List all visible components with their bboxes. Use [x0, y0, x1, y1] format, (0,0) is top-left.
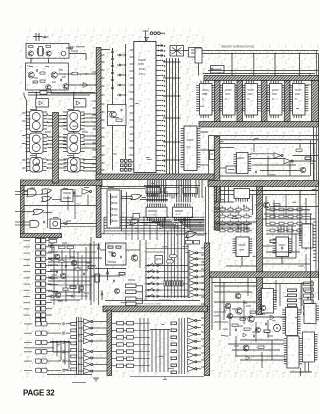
wire U31 U32 bottom	[241, 257, 243, 267]
wires bm to right	[139, 318, 141, 372]
capacitor row C17-C21	[119, 54, 121, 57]
coil L1	[273, 324, 280, 331]
bus bar D (hatched)	[205, 243, 210, 376]
specks rc	[50, 242, 55, 244]
IC U33 right edge	[302, 224, 313, 248]
resistor pack comb	[164, 281, 166, 286]
wire brc h4	[240, 339, 284, 341]
diode ladder in U28	[111, 196, 114, 199]
wire blk1 h2	[220, 143, 316, 145]
transistor Q11	[225, 303, 231, 309]
vertical bus lines bd	[178, 318, 180, 374]
wire brc v	[255, 322, 257, 342]
resistor column RN6	[171, 322, 177, 325]
vertical bus lines bm	[76, 317, 78, 375]
wires center under band dense	[146, 191, 168, 193]
gate U20 AND	[28, 189, 37, 196]
wire blk1 h7	[252, 164, 296, 166]
wire brc h5	[235, 355, 285, 357]
wire gates h1	[24, 205, 96, 207]
transistor Q12	[236, 308, 242, 314]
vertical lines center bottom	[151, 330, 153, 373]
wire gates h4	[52, 199, 61, 201]
wire blk2 h1	[220, 190, 319, 192]
bus junction dots	[127, 222, 129, 224]
transistor Q16	[54, 254, 60, 260]
gates column G3	[188, 318, 195, 323]
wires rc area	[51, 243, 53, 252]
resistor column RN5	[71, 323, 77, 326]
right area wires y186-272	[265, 196, 267, 226]
wire bm bus top	[50, 341, 70, 343]
bar A right stubs	[101, 54, 105, 56]
transformer TL3	[30, 158, 43, 173]
transistor Q7	[110, 111, 117, 118]
wire lrb h1	[212, 282, 257, 284]
capacitor stack C30-C32	[160, 44, 162, 47]
detector box L	[36, 99, 49, 108]
IC U31	[236, 237, 249, 257]
resistor R21	[244, 328, 250, 330]
buffer IC U9	[234, 189, 250, 199]
decoupling ladder wires	[112, 48, 114, 170]
wire lrb h2	[263, 283, 311, 285]
junction dots ladder	[125, 54, 126, 55]
keyboard matrix rows + key switches	[145, 265, 188, 267]
gates column G2	[84, 319, 91, 324]
jumper oval J5	[170, 255, 177, 258]
oscillator box U1	[26, 44, 69, 59]
bus taps left	[125, 217, 127, 240]
resistor R2	[46, 46, 51, 48]
wire timer v1	[90, 237, 92, 305]
shield band right (hatched)	[208, 181, 319, 187]
junctions rm2	[265, 218, 266, 219]
horizontal taps cpu-right bus	[163, 61, 181, 63]
wires rc extra	[50, 251, 96, 253]
wire timer h1	[95, 268, 126, 270]
transistor Q2	[46, 51, 51, 56]
comb right edge	[313, 221, 316, 223]
wire rn bus	[144, 185, 200, 187]
capacitor C40	[113, 280, 115, 283]
timer box outline	[106, 243, 127, 265]
diode D2	[270, 315, 274, 320]
resistor R14	[270, 240, 276, 242]
test point TP1	[61, 51, 66, 56]
shield band center (hatched)	[96, 174, 214, 180]
junction blk2	[252, 190, 253, 191]
chain right wires to bar A	[84, 113, 97, 115]
chain R vertical wires	[73, 107, 75, 111]
capacitor C60	[253, 335, 255, 338]
wire bar A top stub	[101, 49, 110, 51]
resistor R3b	[33, 81, 38, 83]
connector column J2 tail	[36, 318, 41, 322]
wire chain left v1	[26, 101, 28, 173]
RAM IC U14 top label	[296, 73, 302, 75]
resistor R22	[258, 346, 264, 348]
wires far right bottom	[300, 368, 302, 376]
transistor Q10	[235, 293, 241, 299]
ground sym bottom	[93, 377, 99, 379]
wires above U31 U32	[237, 224, 239, 233]
resistor R20	[232, 324, 238, 326]
wire osc output	[69, 53, 86, 55]
transistor Q1	[28, 51, 33, 56]
wire timer v2	[98, 258, 100, 305]
divider box U2	[26, 63, 69, 90]
transformer TR3	[68, 158, 81, 173]
wire brc out1	[299, 371, 310, 373]
capacitor C22	[120, 109, 122, 112]
IC U12	[173, 207, 193, 217]
label bottom	[72, 382, 86, 384]
crystal X1	[39, 47, 43, 56]
label speck t1	[128, 279, 135, 281]
transistor Q6	[63, 84, 68, 89]
RAM board frame bottom (hatched)	[199, 122, 319, 128]
component chain rows right-mid	[216, 209, 252, 211]
output IC U18	[303, 332, 315, 362]
wire blk1 h6	[220, 147, 234, 149]
wire blk1 v1	[253, 144, 255, 152]
flipflop box U27	[50, 219, 61, 229]
small box M2	[194, 241, 200, 245]
wire gates out2	[61, 226, 97, 228]
wire top bus to expansion	[201, 50, 319, 52]
wire bus left tail	[103, 217, 105, 234]
RAM IC U11 pins	[219, 85, 222, 87]
RAM IC U14 top/bottom ticks	[293, 81, 295, 84]
transistor Q17	[71, 260, 77, 266]
RAM IC U13 pins	[266, 85, 269, 87]
label speck	[108, 187, 114, 189]
jumper pad grid 3x3	[121, 160, 124, 163]
wire right edge v2	[318, 187, 320, 301]
gate U21 OR	[42, 189, 52, 194]
RAM IC U12 top/bottom ticks	[246, 81, 248, 84]
CPU right pins	[156, 45, 162, 47]
gate U22 OR	[42, 196, 52, 201]
RAM IC U10 window	[200, 84, 213, 116]
RAM frame right (hatched)	[312, 81, 319, 122]
wire gates v2	[47, 190, 49, 228]
transistor Q23	[131, 255, 137, 261]
transistor Q18	[60, 273, 66, 279]
wires rm2 dense	[263, 190, 319, 192]
pair-to-bus links	[134, 322, 151, 324]
resistor R12	[305, 157, 311, 159]
gate U24	[82, 189, 90, 195]
driver cluster extra parts	[227, 313, 232, 318]
chain left wires	[22, 112, 26, 114]
wire blk1 h5	[220, 175, 310, 177]
right edge bus wires	[313, 127, 315, 181]
wire osc to divider	[30, 58, 32, 63]
shaper box U28	[107, 190, 120, 228]
bar B (hatched)	[53, 113, 59, 184]
resistor R5	[72, 72, 78, 75]
driver IC U15	[286, 308, 298, 336]
gate U26 AND	[30, 221, 39, 228]
detector box R	[73, 99, 86, 108]
resistor R23	[264, 330, 270, 332]
wire under band h2	[100, 188, 145, 190]
bar A left stubs	[93, 71, 97, 73]
wire bottom feedback	[50, 90, 52, 93]
reset circuit box	[108, 105, 127, 126]
gate U13 OR	[186, 232, 197, 238]
gate U10 OR	[131, 194, 142, 200]
annotation specks global	[113, 116, 119, 118]
connector pills J3	[24, 323, 32, 325]
capacitor C51	[243, 205, 245, 208]
resistor R31	[119, 273, 125, 275]
decoder box U4	[195, 48, 202, 63]
left margin stubs	[15, 191, 21, 193]
long label line	[24, 347, 54, 349]
small box M1	[186, 241, 193, 245]
tiny parts rc extra	[59, 260, 64, 262]
diode D1	[83, 83, 88, 88]
transistor Q24	[114, 288, 119, 293]
top bus wires over chains	[28, 92, 95, 94]
buffer network RN1	[146, 188, 161, 194]
bus drop wires	[231, 54, 233, 76]
wire blk2 h3	[264, 213, 312, 215]
resistor pack RP1	[288, 289, 297, 292]
gate U5	[211, 66, 225, 74]
timer parts inside	[108, 246, 113, 248]
transformer TR1	[67, 111, 81, 132]
transformer TL2	[30, 133, 44, 154]
capacitor group	[65, 265, 67, 268]
wire lrb h3	[214, 301, 256, 303]
transistor Q20	[55, 292, 61, 298]
transistor Q9	[264, 202, 270, 208]
wire under band v1	[121, 190, 123, 231]
wires from pills to bus	[47, 374, 92, 376]
regulator box REG1	[189, 48, 202, 58]
wire right edge v1	[310, 214, 312, 300]
wire chain left jog	[24, 96, 27, 101]
RAM IC U12 top label	[248, 73, 254, 75]
wire blk2 taps	[216, 187, 218, 203]
wire under band h1	[100, 186, 160, 188]
resistor R6	[116, 119, 122, 121]
wire blk1 v3	[267, 156, 269, 177]
wires timer area	[100, 249, 106, 251]
transistor Q14	[260, 305, 266, 311]
shield band left (hatched)	[21, 180, 103, 186]
resistor R11	[274, 204, 280, 206]
capacitor Cg1	[43, 221, 45, 224]
connector pair columns	[117, 322, 124, 325]
transistor Q8	[300, 167, 305, 172]
vertical tap wires above U11 U12	[147, 180, 149, 203]
power input +B	[145, 31, 147, 42]
wire blk1 out	[293, 155, 319, 157]
transistor Q4	[51, 72, 57, 78]
address latch U6	[237, 153, 249, 174]
wires right col dense	[315, 187, 317, 273]
svg-text:PAGE 32: PAGE 32	[23, 388, 55, 397]
RAM IC U14 window	[285, 81, 291, 122]
CPU IC U3 8-834	[134, 42, 156, 173]
wire lrb v1	[211, 277, 213, 330]
staircase drops	[52, 342, 54, 353]
matrix top wires	[146, 248, 188, 250]
transformer TR2	[67, 133, 81, 154]
chain labels specks	[30, 109, 36, 111]
wires bottom right area	[214, 285, 256, 287]
capacitor ladder C10-C16	[111, 50, 114, 52]
buffer network RN2	[165, 188, 180, 194]
arrow up A1	[98, 243, 100, 258]
pin dot column right of cpu	[164, 45, 166, 47]
shield band 4 (hatched)	[210, 272, 319, 278]
RAM IC U11 window	[215, 81, 221, 122]
junctions blk1	[253, 139, 254, 140]
wire blk1 h1	[220, 139, 319, 141]
transistor Q3	[28, 72, 34, 78]
wire gates h2	[61, 223, 97, 225]
IC U30 (peripheral)	[184, 126, 197, 171]
wire blk1 h3	[250, 153, 274, 155]
wire gates h3	[24, 194, 42, 196]
RAM IC U13 top/bottom ticks	[270, 81, 272, 84]
IC U11	[146, 207, 167, 217]
wires blk2 mid h	[214, 221, 257, 223]
scan noise texture	[19, 44, 319, 378]
wire blk2 h2	[220, 194, 316, 196]
wire blk2 h4	[214, 201, 234, 203]
wire timer h2	[91, 275, 120, 277]
right col parts y278-320	[301, 282, 303, 306]
transistor Q15	[243, 345, 249, 351]
nested corner wires from U12	[176, 219, 205, 221]
transistor Q19	[78, 285, 84, 291]
RAM IC U13 top label	[273, 73, 279, 75]
RAM IC U12 pins	[242, 85, 245, 87]
stacked connector boxes	[126, 284, 137, 288]
RAM IC U11 top label	[226, 73, 232, 75]
label LS	[210, 151, 215, 160]
wire U4 down	[198, 64, 200, 76]
gate U7B	[284, 158, 291, 164]
wire blk1 v2	[299, 144, 301, 148]
keyboard matrix columns	[164, 247, 166, 299]
RC network parts area	[49, 240, 57, 243]
keyboard matrix gates	[189, 250, 196, 255]
gate U7A	[274, 153, 281, 159]
gate U29 OR	[130, 219, 140, 224]
connector column J2	[24, 240, 31, 242]
long horizontal wires bl	[48, 244, 100, 246]
arrow up A2	[107, 268, 109, 280]
output IC U17	[287, 336, 299, 368]
shield band 3 (hatched)	[103, 306, 208, 312]
shield box left border (hatched)	[21, 186, 25, 235]
logic block border	[209, 135, 319, 137]
transformer TL1	[30, 111, 44, 132]
wires U30 to right	[200, 131, 208, 133]
bus bar C (hatched)	[107, 310, 112, 376]
wire FL1 to REG	[184, 50, 189, 52]
capacitor C1 trimmer network above oscillator	[35, 33, 37, 41]
capacitor C50	[255, 171, 257, 174]
vertical bus right of CPU	[166, 58, 168, 174]
bottom rail ground	[164, 377, 166, 380]
RAM IC U14 pins	[289, 85, 292, 87]
RAM IC U10 top/bottom ticks	[200, 81, 202, 84]
gate U25 OR	[33, 209, 44, 215]
specks gates box	[30, 187, 35, 189]
bus taps down	[164, 217, 166, 246]
wire address bus h2	[205, 73, 315, 75]
wire under band v2	[126, 192, 128, 228]
RAM IC U10 pins	[196, 85, 199, 87]
nested corner wires from U11	[150, 220, 171, 221]
RAM IC U13 window	[262, 81, 268, 122]
chain cross wires	[48, 115, 53, 117]
wires bottom right lower	[228, 343, 284, 345]
wire gate out	[140, 199, 168, 201]
test point box	[133, 214, 140, 219]
vertical tap wires right of U12	[195, 180, 197, 199]
transistor Q13	[248, 316, 254, 322]
wire address bus h	[208, 70, 319, 72]
wires right edge blk1	[310, 140, 312, 176]
chain L vertical wires	[35, 107, 37, 111]
wire gates v	[67, 196, 69, 210]
resistor R10	[296, 149, 302, 151]
wires right mid2	[266, 251, 300, 253]
gate U8	[226, 166, 236, 173]
shield box bottom border (hatched)	[21, 234, 62, 238]
capacitor C6	[60, 79, 62, 82]
RAM IC U11 top/bottom ticks	[223, 81, 225, 84]
right edge resistor strip	[304, 282, 314, 285]
bar D left stubs	[201, 247, 205, 249]
data bus lines center	[104, 216, 205, 218]
RAM IC U10 top label	[203, 73, 209, 75]
buffer network RN3	[183, 188, 198, 194]
wire ladder to CPU stubs	[130, 49, 134, 51]
jumper oval J6	[167, 260, 174, 263]
IC U32	[276, 237, 289, 257]
resistor R13	[232, 216, 238, 218]
IC U14	[262, 289, 274, 314]
resistor R3	[40, 72, 45, 74]
vertical bar F (hatched)	[214, 137, 220, 231]
wires band2 to bar D	[205, 187, 207, 244]
transistor Q5	[46, 85, 51, 90]
keyboard decode box	[155, 256, 163, 265]
wire blk2 h5	[214, 211, 240, 213]
specks driver cluster	[232, 308, 237, 310]
wire above band3	[105, 300, 200, 302]
gate cluster U23	[61, 190, 73, 202]
resistor R4	[40, 80, 45, 82]
bus bar E (hatched)	[257, 187, 263, 315]
wire blk2 out	[270, 206, 319, 208]
bottom rail	[130, 376, 204, 378]
power connector pins	[150, 32, 153, 35]
capacitor C5	[36, 69, 38, 72]
wire divider out A	[57, 73, 96, 75]
